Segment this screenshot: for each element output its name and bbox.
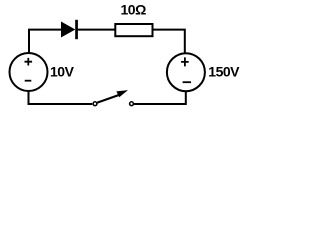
svg-text:150V: 150V (208, 63, 240, 79)
svg-text:10V: 10V (50, 64, 75, 80)
svg-text:10Ω: 10Ω (121, 2, 147, 18)
